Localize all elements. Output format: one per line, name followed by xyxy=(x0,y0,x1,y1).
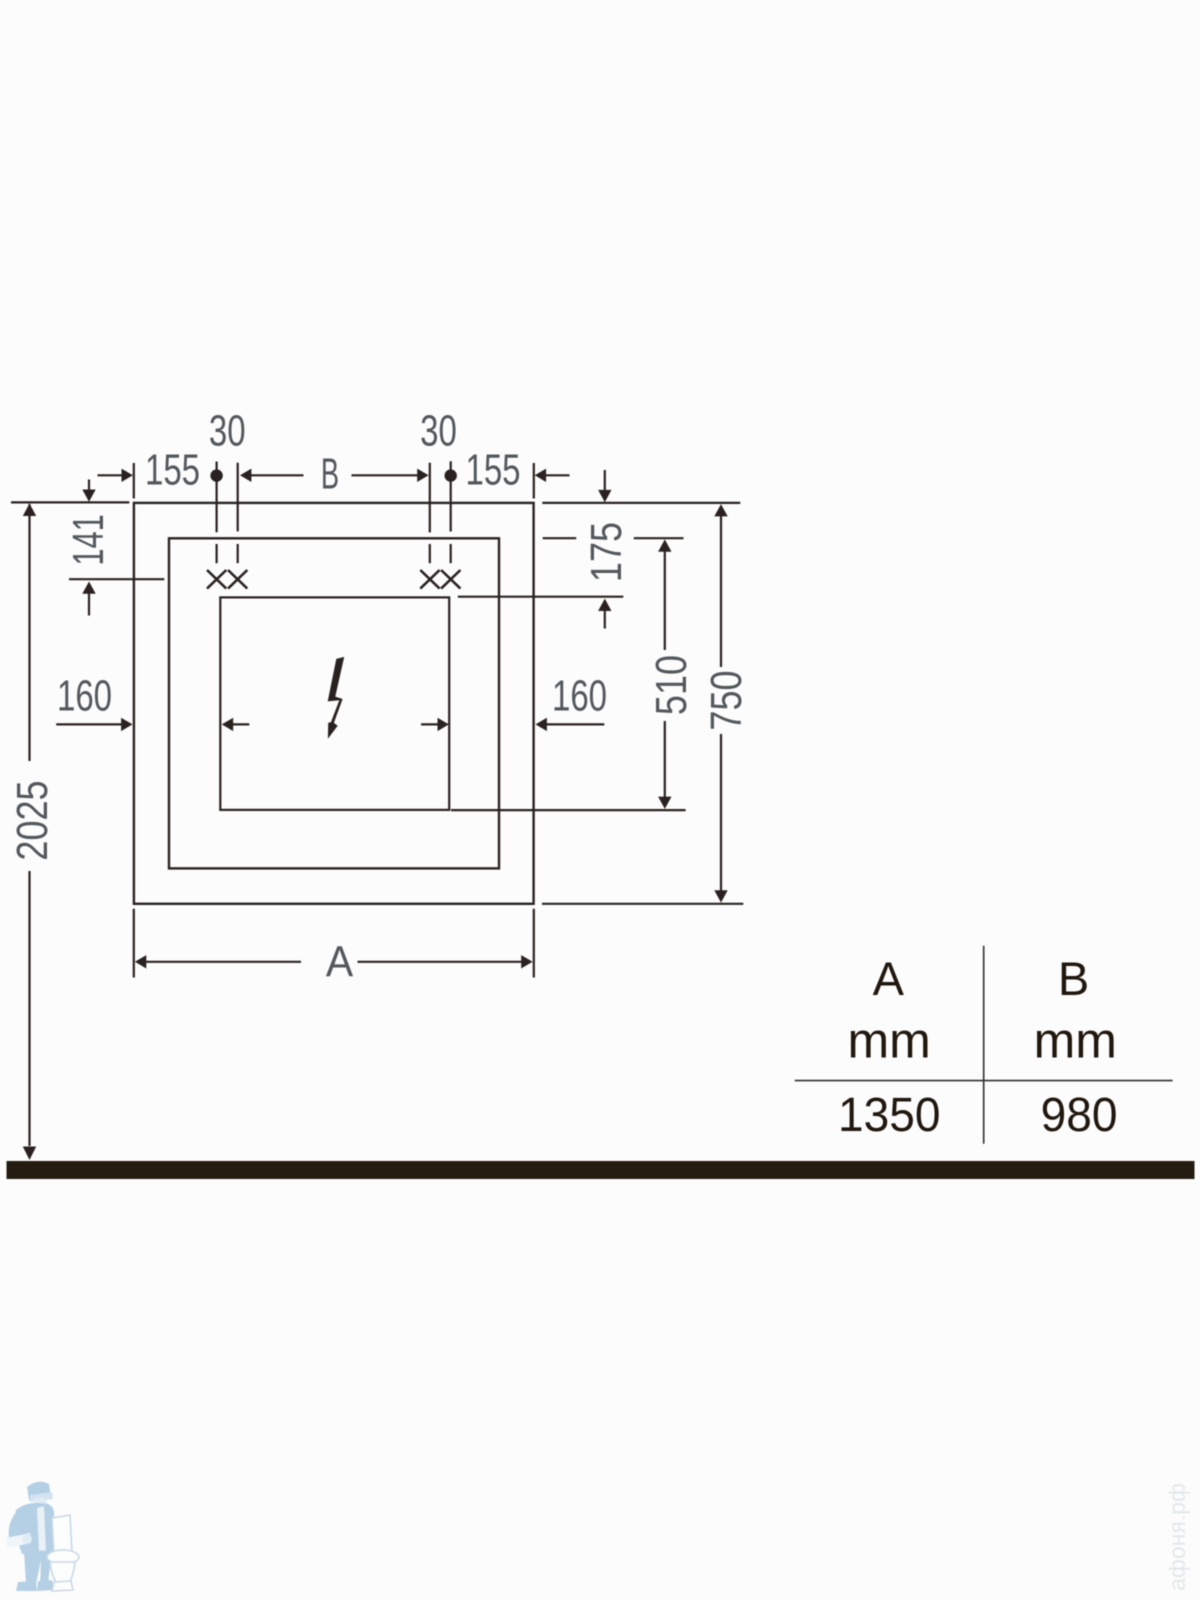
dim 160 right xyxy=(421,723,438,725)
wire top-right extension line xyxy=(542,502,740,504)
svg-text:2025: 2025 xyxy=(8,780,57,860)
svg-text:155: 155 xyxy=(145,446,200,495)
node dot right hole xyxy=(445,469,457,481)
dim 510 xyxy=(664,551,666,650)
svg-text:A: A xyxy=(326,938,354,987)
hole line 4 xyxy=(450,461,452,531)
svg-text:1350: 1350 xyxy=(838,1088,940,1142)
hole line 2 xyxy=(237,463,239,532)
dim 175 bottom arrow xyxy=(598,599,611,611)
outer rectangle (mirror outline) xyxy=(134,503,534,904)
wire middle-top right extension xyxy=(543,537,577,539)
wire inner-top right extension xyxy=(458,596,624,598)
node dot left hole xyxy=(210,469,222,481)
svg-text:A: A xyxy=(873,952,905,1005)
dim A line xyxy=(146,961,301,963)
svg-text:B: B xyxy=(321,449,339,498)
svg-text:980: 980 xyxy=(1041,1088,1118,1142)
table divider vertical xyxy=(983,946,985,1144)
inner rectangle xyxy=(220,597,449,810)
svg-text:mm: mm xyxy=(1034,1013,1117,1069)
wire left 155 extension bar xyxy=(133,463,135,499)
hole line 1 xyxy=(216,462,218,533)
floor line xyxy=(7,1161,1195,1179)
x mark hole 3 xyxy=(420,570,439,589)
svg-text:30: 30 xyxy=(420,407,457,456)
arrow B left xyxy=(240,469,251,482)
x mark hole 2 xyxy=(228,570,247,589)
svg-text:mm: mm xyxy=(848,1013,931,1069)
x mark hole 1 xyxy=(207,570,226,589)
dim 750 xyxy=(720,516,722,667)
wire inner-bottom right extension xyxy=(451,809,686,811)
dim 175 top arrow xyxy=(604,470,606,491)
table divider horizontal xyxy=(795,1080,1173,1082)
wire hole height line left xyxy=(69,578,164,580)
dim A extension bars xyxy=(133,909,135,978)
dim 141 bottom arrow xyxy=(82,582,95,594)
svg-text:155: 155 xyxy=(465,446,520,495)
arrow 155 left xyxy=(122,469,133,482)
svg-text:160: 160 xyxy=(57,672,112,721)
svg-text:160: 160 xyxy=(552,672,607,721)
wire outer-bottom right extension xyxy=(542,903,743,905)
x mark hole 4 xyxy=(441,570,460,589)
lightning bolt symbol xyxy=(328,657,345,739)
hole line 3 xyxy=(429,463,431,533)
wire top dim line segments xyxy=(98,474,570,476)
svg-text:B: B xyxy=(1058,952,1089,1005)
wire right 155 extension bar xyxy=(533,463,535,499)
svg-text:афоня.рф: афоня.рф xyxy=(1164,1483,1190,1591)
wire top-left extension line xyxy=(11,501,129,503)
svg-text:30: 30 xyxy=(209,407,246,456)
middle rectangle xyxy=(169,538,499,868)
dim 2025 line xyxy=(28,504,30,761)
dim 141 top arrow xyxy=(88,480,90,491)
svg-text:175: 175 xyxy=(582,522,631,582)
dim 160 left xyxy=(56,723,122,725)
svg-text:750: 750 xyxy=(702,670,751,730)
arrow B right xyxy=(417,469,428,482)
watermark plumber logo xyxy=(6,1482,79,1591)
svg-text:510: 510 xyxy=(647,655,696,715)
arrow 155 right xyxy=(535,469,546,482)
svg-text:141: 141 xyxy=(65,514,114,565)
